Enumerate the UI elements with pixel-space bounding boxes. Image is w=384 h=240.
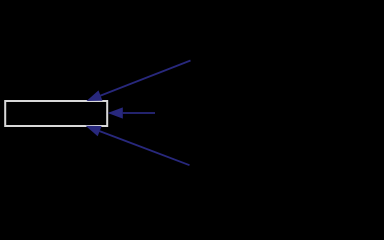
top arrowhead: [87, 90, 103, 101]
wire bottom arrow line: [100, 131, 190, 165]
rectangle box: [5, 101, 107, 126]
wire middle arrow line: [123, 112, 155, 114]
bottom arrowhead: [86, 126, 102, 137]
middle arrowhead: [108, 107, 123, 118]
wire top arrow line: [101, 61, 191, 96]
